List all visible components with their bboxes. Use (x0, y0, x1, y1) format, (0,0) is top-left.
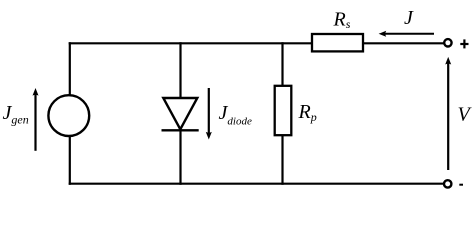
svg-text:J: J (404, 7, 414, 29)
diode D1 (162, 98, 199, 130)
svg-text:V: V (458, 103, 473, 125)
wire top rail left of Rs (69, 42, 312, 44)
current source J_gen circle (48, 95, 89, 136)
current direction arrow for J_gen (33, 88, 39, 151)
terminal - node (444, 180, 451, 187)
minus sign (459, 184, 463, 186)
wire left rail lower (69, 136, 71, 185)
resistor Rs (312, 34, 363, 51)
terminal + node (444, 39, 451, 46)
svg-text:Rs: Rs (333, 8, 351, 31)
current arrow J (379, 31, 434, 37)
wire diode branch top (179, 42, 181, 99)
current arrow J_diode (206, 88, 212, 140)
wire left rail upper (69, 42, 71, 96)
svg-text:Rp: Rp (298, 101, 317, 124)
wire diode branch bottom (179, 130, 181, 185)
wire Rp branch top (281, 42, 283, 86)
wire top rail right of Rs to + terminal (363, 42, 444, 44)
svg-text:Jgen: Jgen (3, 102, 29, 127)
svg-text:Jdiode: Jdiode (219, 102, 252, 128)
voltage arrow V (445, 57, 451, 170)
plus sign (460, 39, 468, 48)
resistor Rp (275, 86, 292, 135)
wire Rp branch bottom (281, 136, 283, 185)
wire bottom rail (69, 183, 444, 185)
